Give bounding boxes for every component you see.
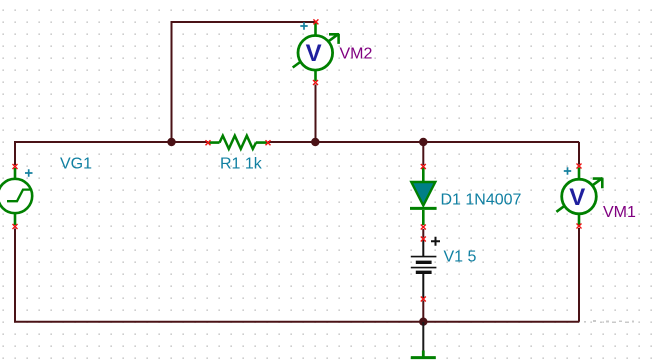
wire: VM1 bottom drop to bottom rail	[578, 228, 580, 322]
pin x D1 anode	[421, 164, 426, 169]
pin x R1 left	[206, 140, 211, 145]
wire: VG1 bottom down to bottom rail	[14, 229, 16, 322]
wire: top loop from node A up and right to VM2 + terminal	[172, 22, 317, 142]
svg-text:V: V	[569, 184, 585, 211]
resistor R1	[209, 136, 267, 149]
voltage generator VG1	[0, 168, 32, 225]
node C junction dot (423.3,142)	[419, 138, 427, 146]
svg-text:V1 5: V1 5	[444, 248, 477, 265]
pin x V1 bottom	[421, 297, 426, 302]
svg-text:R1 1k: R1 1k	[220, 156, 263, 173]
battery plus mark	[431, 237, 440, 246]
pin x VM2 top	[313, 19, 318, 24]
pin x VM2 bottom	[313, 80, 318, 85]
wire: main horizontal left segment (VG1 to R1 left pin)	[14, 141, 208, 165]
wire: bottom rail	[14, 321, 579, 323]
node A junction dot (171.5,142)	[167, 138, 175, 146]
svg-text:VM1: VM1	[603, 204, 636, 221]
ground	[411, 322, 436, 358]
node B junction dot (315.3,142)	[311, 138, 319, 146]
pin x VM1 top	[577, 164, 582, 169]
wire: diode cathode to battery plus pin	[422, 229, 424, 238]
wire: battery minus pin to bottom node D	[422, 301, 424, 323]
faint watermark remnant bottom right	[584, 320, 634, 323]
svg-text:V: V	[306, 40, 322, 67]
pin x V1 top	[421, 237, 426, 242]
svg-text:D1 1N4007: D1 1N4007	[441, 192, 522, 209]
battery V1	[411, 240, 437, 298]
diode D1	[410, 167, 437, 225]
VM2 plus mark	[300, 22, 307, 29]
VM1 plus mark	[564, 167, 571, 174]
node D junction dot (423.3,321.7)	[419, 318, 427, 326]
svg-text:VG1: VG1	[60, 156, 92, 173]
pin x VM1 bottom	[577, 224, 582, 229]
voltmeter VM2	[293, 23, 339, 81]
wire: main horizontal right segment (R1 right pin to VM1 corner)	[268, 142, 579, 165]
pin x R1 right	[266, 140, 271, 145]
pin cross marks (red x)	[13, 19, 582, 301]
wire: node C down to diode top pin	[422, 142, 424, 165]
pin x VG1 top	[13, 164, 18, 169]
wire: VM2 bottom drop to node B	[315, 85, 317, 143]
pin x VG1 bottom	[13, 224, 18, 229]
voltmeter VM1	[556, 168, 602, 226]
svg-text:VM2: VM2	[340, 45, 373, 62]
VG1 plus mark	[25, 169, 33, 176]
pin x D1 cathode	[421, 225, 426, 230]
